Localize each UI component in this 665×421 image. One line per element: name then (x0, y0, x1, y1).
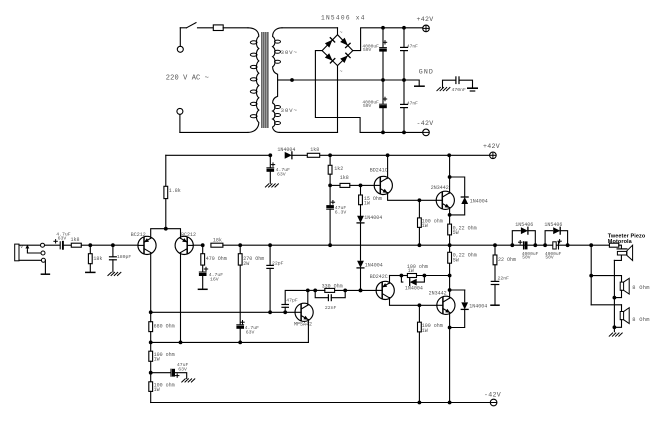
resistor 270 Ohm 2W (238, 245, 264, 267)
transistor Q5 MPSA42 (294, 303, 313, 327)
transistor Q7 2N3442 (lower) (429, 291, 455, 315)
svg-text:1W: 1W (422, 328, 428, 334)
resistor 0.22 Ohm 5W (lower) (448, 252, 477, 263)
wire Q1 collector (150, 253, 152, 313)
wire speaker bus A (589, 245, 621, 305)
svg-text:63V: 63V (246, 329, 255, 335)
svg-text:22 Ohm: 22 Ohm (498, 257, 516, 263)
diode D8 1N4004 (upper) (450, 177, 488, 215)
wire psu gnd rail (292, 79, 404, 81)
svg-text:-42V: -42V (417, 120, 434, 127)
diode D1 1N5406 (left-top edge) (325, 38, 335, 48)
transformer T1 primary winding (248, 28, 259, 133)
svg-text:50V: 50V (363, 103, 372, 109)
resistor 18k input (86, 243, 103, 272)
resistor 1.8k tail (164, 155, 181, 230)
svg-text:63V: 63V (277, 172, 286, 178)
svg-text:63V: 63V (178, 366, 187, 372)
transformer T1 secondary windings (273, 28, 282, 133)
capacitor C12 22pF (267, 245, 284, 314)
resistor 330 Ohm (315, 283, 342, 292)
wire Q6 collector to Q7 base (390, 298, 438, 308)
wire line B (149, 341, 309, 345)
svg-text:1W: 1W (364, 201, 370, 207)
svg-text:63V: 63V (58, 236, 67, 242)
svg-text:BC212: BC212 (131, 232, 146, 238)
transistor Q3 BD241C (361, 167, 393, 194)
terminal: mains line input (177, 28, 183, 53)
svg-text:50V: 50V (363, 47, 372, 53)
wire line A (149, 310, 295, 314)
speaker SP1 8 Ohm (614, 278, 649, 297)
svg-text:22pF: 22pF (272, 261, 284, 267)
label Tweeter Piezo Motorola (608, 234, 646, 245)
wire speaker bus B (613, 260, 617, 331)
transistor Q4 2N3442 (upper) (431, 185, 455, 209)
resistor 100 ohm 1W (fb lower) (149, 373, 175, 403)
diode D9 1N4004 parallel (401, 276, 424, 292)
svg-text:330 Ohm: 330 Ohm (322, 283, 343, 289)
wire Q3 emitter to Q4 base (388, 193, 437, 203)
wire Q7 emitter to rail (449, 328, 451, 403)
svg-text:2W: 2W (243, 261, 249, 267)
svg-text:220 V AC ~: 220 V AC ~ (166, 75, 209, 83)
diode D7 1N4004 lower bias (357, 261, 383, 269)
svg-text:1N5406 x4: 1N5406 x4 (321, 14, 366, 21)
svg-text:1N4004: 1N4004 (277, 147, 295, 153)
capacitor C13 47uF 63V (149, 362, 195, 382)
diode D4 1N5406 (bottom-right edge) (340, 53, 350, 63)
svg-text:8 Ohm: 8 Ohm (632, 317, 649, 323)
label 30V~ upper (281, 49, 298, 56)
ground speakers (609, 333, 622, 336)
diode D2 1N5406 (top-right edge) (340, 38, 350, 48)
wire bus A to speaker2 (591, 276, 621, 283)
svg-text:1N4004: 1N4004 (365, 262, 383, 268)
wire bias chain crossing output line (360, 223, 362, 260)
svg-text:~: ~ (340, 30, 343, 36)
capacitor C14 47pF (282, 290, 308, 312)
resistor 1k2 (328, 155, 343, 185)
svg-text:16V: 16V (210, 277, 219, 283)
wire secondary bottom to bridge (280, 131, 338, 133)
wire mains bottom (180, 131, 248, 133)
resistor 15 Ohm 1W (359, 185, 382, 215)
ground stub psu gnd (404, 80, 424, 86)
capacitor C8 4.7uF 63V input (45, 231, 72, 248)
terminal -42V amp (484, 391, 501, 406)
resistor 1k8 rail (307, 147, 319, 157)
svg-text:30V~: 30V~ (281, 49, 298, 56)
switch S mains (180, 23, 196, 28)
svg-text:+42V: +42V (417, 16, 434, 23)
capacitor C3 47nF (+rail) (401, 26, 419, 82)
svg-text:180pF: 180pF (117, 254, 132, 260)
svg-text:Motorola: Motorola (608, 239, 633, 245)
svg-text:~: ~ (340, 69, 343, 75)
svg-text:22nF: 22nF (498, 276, 510, 282)
diode D12 1N5406 (output cap 2) (544, 222, 567, 245)
svg-text:GND: GND (419, 68, 434, 75)
capacitor C1 4000uF 50V (+rail) (362, 26, 386, 82)
wire bridge bottom corner (337, 66, 339, 133)
svg-text:1k8: 1k8 (310, 147, 319, 153)
wire Q5 collector (306, 289, 310, 306)
diode D6 1N4004 upper bias (357, 215, 382, 223)
transistor Q2 BC212 (right) (175, 232, 196, 255)
resistor 100 ohm 1W (upper) (418, 200, 443, 245)
wire Q3 collector (387, 155, 389, 178)
svg-text:1W: 1W (408, 268, 414, 274)
svg-text:BD242C: BD242C (370, 274, 388, 280)
svg-text:5W: 5W (453, 230, 459, 236)
diode D10 1N4004 (lower) (450, 290, 488, 328)
resistor 18k feedback (211, 238, 223, 248)
label ~ ac bottom (340, 69, 343, 75)
terminal +42V psu (417, 16, 434, 32)
svg-text:680 Ohm: 680 Ohm (154, 323, 175, 329)
svg-text:1W: 1W (154, 357, 160, 363)
svg-text:18k: 18k (93, 256, 102, 262)
bridge diamond wires (322, 35, 353, 66)
wire secondary top to bridge (282, 27, 338, 29)
wire fb line (223, 243, 332, 247)
diode D3 1N5406 (left-bottom edge) (325, 53, 335, 63)
wire output line (330, 243, 609, 247)
resistor 680 Ohm (149, 312, 175, 342)
svg-text:-42V: -42V (484, 391, 501, 398)
svg-text:1.8k: 1.8k (169, 188, 181, 194)
svg-text:1N4004: 1N4004 (364, 215, 382, 221)
wire switch to fuse (198, 27, 214, 29)
svg-text:47nF: 47nF (407, 44, 418, 50)
transistor Q6 BD242C (370, 274, 395, 300)
capacitor C9 180pF (90, 243, 131, 275)
wire bridge plus output (353, 28, 423, 51)
svg-text:470nF: 470nF (452, 87, 467, 93)
svg-text:BC212: BC212 (181, 232, 196, 238)
svg-text:6.3V: 6.3V (335, 209, 347, 215)
capacitor C2 4000uF 50V (-rail) (362, 80, 386, 134)
svg-text:1k8: 1k8 (340, 175, 349, 181)
svg-text:1W: 1W (154, 387, 160, 393)
resistor tweeter series (609, 243, 618, 247)
svg-text:1k2: 1k2 (334, 166, 343, 172)
svg-text:1N4004: 1N4004 (469, 304, 487, 310)
resistor 22 Ohm zobel (493, 245, 516, 265)
wire to Q1 base (113, 244, 138, 246)
terminal -42V psu (417, 120, 434, 136)
wire Q2 base line (193, 243, 205, 247)
connector J1 input jack (15, 243, 50, 274)
resistor 0.22 Ohm 5W (upper) (448, 215, 477, 245)
svg-text:50V: 50V (545, 255, 554, 261)
capacitor C16 22nF zobel (491, 265, 509, 305)
amp +42V rail (166, 153, 490, 157)
svg-text:30V~: 30V~ (281, 107, 298, 114)
capacitor C5 470nF (437, 77, 477, 93)
svg-text:+42V: +42V (483, 143, 500, 150)
label 30V~ lower (281, 107, 298, 114)
svg-text:1N4004: 1N4004 (470, 198, 488, 204)
wire Q7 emitter (448, 313, 452, 330)
speaker SP2 8 Ohm (614, 305, 649, 328)
wire fuse to transformer (223, 27, 248, 29)
wire secondary centre tap (278, 78, 294, 82)
svg-text:47nF: 47nF (407, 100, 418, 106)
svg-text:1N4004: 1N4004 (405, 286, 423, 292)
terminal: mains neutral input (177, 108, 183, 132)
resistor 100 ohm 1W (lower) (418, 305, 443, 402)
transformer T1 core (262, 33, 268, 128)
capacitor C4 47nF (-rail) (401, 80, 419, 134)
capacitor C15 22nF (315, 290, 345, 311)
capacitor C7 47uF 6.3V (327, 185, 347, 245)
svg-text:22nF: 22nF (325, 305, 337, 311)
terminal +42V amp (483, 143, 500, 159)
wire tail to emitters (151, 229, 181, 239)
label 220 V AC ~ (166, 75, 209, 83)
svg-text:1N5406: 1N5406 (515, 222, 533, 228)
diode D5 1N4004 rail (277, 147, 295, 159)
transistor Q1 BC212 (left) (131, 232, 156, 255)
svg-text:BD241C: BD241C (370, 167, 388, 173)
resistor 1k8 input (71, 237, 91, 247)
diode D11 1N5406 (output cap 1) (512, 222, 535, 245)
svg-text:2N3442: 2N3442 (429, 291, 447, 297)
resistor 100 ohm 1W (fb upper) (149, 342, 175, 372)
svg-text:1N5406: 1N5406 (544, 222, 562, 228)
svg-text:470 Ohm: 470 Ohm (206, 256, 227, 262)
wire Q6 emitter (390, 274, 404, 284)
fuse F1 (213, 25, 223, 31)
capacitor C6 4.7uF 63V rail decouple (265, 155, 290, 187)
capacitor C10 4.7uF 16V (198, 265, 223, 289)
wire D7 to lower base line (359, 268, 363, 292)
svg-text:1k8: 1k8 (71, 237, 80, 243)
svg-text:50V: 50V (522, 255, 531, 261)
svg-text:2N3442: 2N3442 (431, 185, 449, 191)
wire Q5 emitter (307, 320, 309, 343)
label GND psu (419, 68, 434, 75)
resistor 1k8 driver base (328, 175, 362, 187)
capacitor C11 4.7uF 63V (237, 265, 259, 344)
resistor 100 ohm 1W parallel (401, 264, 449, 277)
wire Q4 emitter (448, 208, 452, 217)
capacitor C17 4000uF 50V (output1) (519, 241, 539, 261)
svg-text:5W: 5W (453, 258, 459, 264)
svg-text:MPSA42: MPSA42 (294, 321, 312, 327)
wire Q2 collector (180, 253, 182, 343)
wire lower base line (308, 289, 377, 293)
svg-text:47pF: 47pF (286, 298, 298, 304)
svg-text:1W: 1W (422, 223, 428, 229)
label ~ ac top (340, 30, 343, 36)
wire bridge top corner (337, 28, 339, 35)
amp -42V rail (151, 401, 491, 405)
capacitor C18 4000uF 50V (output2) (545, 240, 562, 261)
svg-text:18k: 18k (213, 238, 222, 244)
wire bridge minus output (315, 51, 422, 133)
tweeter piezo (614, 245, 632, 260)
svg-text:8 Ohm: 8 Ohm (632, 285, 649, 291)
wire Q4 collector (448, 155, 452, 193)
resistor 470 Ohm (201, 245, 227, 265)
label 1N5406 x4 (321, 14, 366, 21)
wire Q7 collector (448, 245, 452, 298)
